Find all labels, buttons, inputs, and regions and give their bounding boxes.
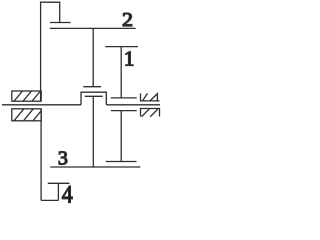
gear bar on crank (pinion) — [50, 22, 71, 24]
carrier crank right vertical to gear bar — [59, 2, 61, 22]
svg-text:3: 3 — [58, 147, 68, 169]
gear 4 bar — [48, 182, 70, 184]
bar below mid line on shaft 1 — [111, 110, 137, 112]
gear bar at bottom of shaft 2 — [83, 86, 101, 88]
left bearing lower block — [12, 109, 41, 121]
svg-text:2: 2 — [122, 9, 133, 31]
shaft 1 lower segment — [120, 111, 122, 162]
bar above mid line on shaft 1 — [111, 97, 137, 99]
gear bar at bottom of shaft 1 — [106, 161, 137, 163]
carrier crank top horizontal — [40, 1, 60, 3]
frame crank lower vertical — [40, 109, 42, 201]
bridge jog over coaxial gears — [81, 92, 106, 105]
frame crank right vertical up to gear 4 — [57, 183, 59, 200]
carrier crank left vertical (upper) — [40, 2, 42, 102]
mid shaft line left portion — [2, 104, 81, 106]
right bearing upper block — [141, 93, 160, 101]
left bearing upper block — [12, 91, 41, 101]
gear 3 pitch line — [50, 166, 140, 168]
shaft 1 upper segment — [120, 47, 122, 98]
lower vertical shaft — [92, 96, 94, 167]
svg-text:4: 4 — [62, 182, 73, 206]
gear bar at top of lower vertical shaft — [85, 95, 103, 97]
svg-text:1: 1 — [124, 46, 134, 70]
shaft of gear 2 (vertical) — [92, 28, 94, 86]
frame crank bottom horizontal — [41, 199, 58, 201]
gear 1 bar — [105, 46, 138, 48]
mid shaft line right portion — [106, 104, 160, 106]
gear 2 pitch line — [50, 27, 136, 29]
right bearing lower block — [141, 109, 160, 117]
